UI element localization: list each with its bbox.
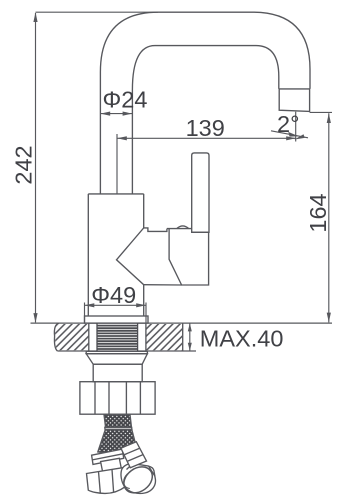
aerator bottom extension line: [310, 111, 332, 113]
countertop hatch left block: [55, 324, 89, 350]
svg-text:Φ24: Φ24: [103, 87, 148, 113]
under-counter washer: [86, 351, 147, 353]
arrow 139 left: [117, 136, 127, 140]
arrow 242 top: [33, 12, 37, 22]
body right edge with V notch: [117, 194, 144, 316]
left fitting neck: [101, 458, 122, 472]
valve housing: [167, 229, 209, 285]
braided hose upper section: [104, 415, 132, 428]
countertop right end: [182, 323, 184, 351]
base flange: [85, 316, 149, 323]
arrow 164 top: [327, 113, 331, 123]
svg-text:MAX.40: MAX.40: [200, 326, 284, 352]
hole right edge: [145, 323, 147, 351]
dim line 242: [35, 13, 37, 322]
under-counter hex nut: [80, 382, 155, 415]
countertop top edge line: [31, 322, 333, 324]
svg-text:164: 164: [305, 193, 331, 232]
handle lever: [192, 153, 209, 232]
arrow 164 bottom: [327, 313, 331, 323]
svg-text:139: 139: [186, 115, 225, 141]
2 degree slant line: [271, 131, 308, 138]
svg-text:242: 242: [11, 145, 37, 184]
handle bottom junction: [192, 231, 209, 233]
arrow phi49 right: [136, 303, 146, 307]
countertop hatch right block: [146, 324, 182, 350]
arrow phi24 right: [123, 112, 133, 116]
arrow 139 right: [286, 136, 296, 140]
under-counter collar trapezoid: [86, 354, 147, 365]
svg-text:Φ49: Φ49: [91, 282, 136, 308]
countertop bottom edge: [57, 350, 196, 352]
dim line 139: [117, 137, 296, 139]
notch bottom line: [144, 284, 182, 286]
arrow 2deg slant: [288, 132, 298, 137]
threaded shank: [97, 323, 138, 351]
braided hose lower section: [98, 430, 138, 455]
housing dome bump: [177, 226, 189, 229]
left fitting crimp collar: [92, 449, 124, 464]
arrow max40 down: [188, 343, 192, 351]
top extension line: [36, 11, 159, 13]
dim line 164: [328, 113, 330, 322]
countertop left rounded end: [54, 323, 59, 351]
spout inner contour: [132, 46, 278, 194]
body top: [88, 193, 143, 195]
max40 dim line: [189, 323, 191, 351]
hole left edge: [88, 323, 90, 351]
hose crimp band: [105, 427, 132, 429]
hex nut facet lines: [95, 382, 140, 415]
arrow max40 up: [188, 323, 192, 331]
body left edge: [87, 194, 89, 316]
collar joint lines: [144, 228, 167, 232]
left hex nut: [87, 467, 126, 493]
svg-text:2°: 2°: [277, 111, 299, 137]
right fitting sleeve: [121, 442, 147, 468]
under-counter cylinder: [93, 364, 142, 382]
arrow phi24 left: [100, 112, 110, 116]
dim line phi24: [100, 113, 132, 115]
right big nut: [119, 462, 157, 499]
arrow phi49 left: [85, 303, 95, 307]
aerator joint line: [279, 88, 310, 90]
arrow 242 bottom: [33, 313, 37, 323]
spout outer contour: [100, 12, 310, 194]
left nut facet lines: [99, 469, 114, 492]
dim line phi49: [85, 304, 147, 306]
ext line pipe centerline: [116, 134, 118, 194]
aerator tip: [279, 89, 309, 112]
phi49 ext lines: [85, 303, 147, 323]
outlet centerline: [295, 112, 297, 142]
